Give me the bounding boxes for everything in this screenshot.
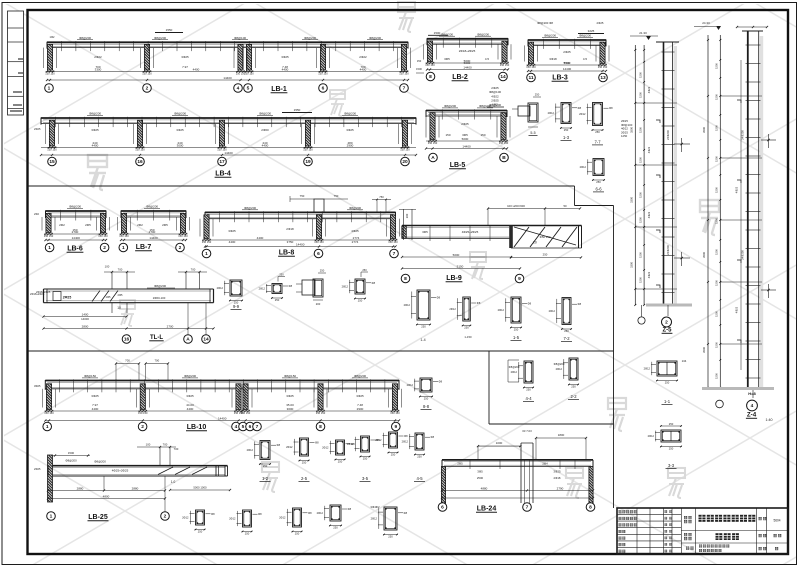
svg-text:Φ8: Φ8 <box>289 284 293 288</box>
svg-text:150 150: 150 150 <box>202 240 212 244</box>
svg-text:14400: 14400 <box>72 236 81 240</box>
column Z-4 elevation <box>694 21 776 422</box>
svg-text:4Φ25+2Φ25: 4Φ25+2Φ25 <box>462 230 479 234</box>
svg-text:150: 150 <box>445 133 450 137</box>
svg-text:4: 4 <box>237 86 240 92</box>
svg-text:Z-5: Z-5 <box>663 328 673 334</box>
svg-text:1: 1 <box>46 424 49 430</box>
svg-text:2Φ2: 2Φ2 <box>137 223 143 227</box>
svg-text:700: 700 <box>174 447 179 451</box>
svg-text:Φ8: Φ8 <box>578 106 582 110</box>
watermark glyphs <box>88 155 107 190</box>
axis bubble 1 of LB-8 <box>202 249 211 258</box>
svg-text:150 150: 150 150 <box>241 411 251 415</box>
svg-text:150 150: 150 150 <box>598 65 608 69</box>
svg-text:150 150: 150 150 <box>303 148 313 152</box>
svg-text:TL-L: TL-L <box>150 335 163 341</box>
axis bubble 14 of LB-2 <box>499 72 508 81</box>
svg-text:LB-24: LB-24 <box>477 506 497 513</box>
svg-text:5000: 5000 <box>462 137 469 141</box>
floor level line <box>635 288 677 290</box>
svg-text:250: 250 <box>245 532 250 536</box>
svg-text:3-5: 3-5 <box>362 476 369 481</box>
svg-text:4400: 4400 <box>282 68 289 72</box>
svg-text:150 150: 150 150 <box>425 63 435 67</box>
svg-text:3Φ25: 3Φ25 <box>91 128 99 132</box>
svg-text:2: 2 <box>141 424 144 430</box>
axis bubble 8 of LB-10 <box>316 422 325 431</box>
svg-text:13: 13 <box>600 75 606 81</box>
section B3 <box>549 298 582 342</box>
svg-text:150 150: 150 150 <box>178 234 188 238</box>
svg-text:2-2: 2-2 <box>570 394 577 399</box>
stirrup tick Z-5 <box>662 236 675 238</box>
axis bubble 1 of LB-10 <box>43 422 52 431</box>
svg-text:1500: 1500 <box>416 67 422 71</box>
floor level line Z-4 <box>720 219 762 221</box>
svg-text:3Φ5: 3Φ5 <box>477 470 483 474</box>
svg-text:1-4: 1-4 <box>420 338 425 342</box>
svg-text:Z-4: Z-4 <box>747 412 757 419</box>
svg-text:7: 7 <box>403 86 406 92</box>
diagonal rebar reverse <box>514 227 576 245</box>
svg-text:1500: 1500 <box>638 252 642 258</box>
svg-text:3Φ25: 3Φ25 <box>281 55 289 59</box>
svg-text:1500: 1500 <box>714 342 718 348</box>
svg-text:8-8: 8-8 <box>423 404 430 409</box>
stirrup tick Z-4 <box>746 100 761 102</box>
section F2 <box>286 438 319 481</box>
stirrup tick Z-5 <box>662 51 675 53</box>
svg-text:2900: 2900 <box>347 144 354 148</box>
svg-text:2Φ12: 2Φ12 <box>579 112 586 116</box>
svg-text:1500: 1500 <box>638 157 642 163</box>
svg-text:7: 7 <box>526 505 529 511</box>
svg-text:1500: 1500 <box>714 311 718 317</box>
svg-text:1500: 1500 <box>714 63 718 69</box>
svg-text:Φ8@200: Φ8@200 <box>369 36 381 40</box>
svg-text:5-5: 5-5 <box>530 131 535 135</box>
svg-text:4Φ22: 4Φ22 <box>647 86 651 93</box>
svg-text:B: B <box>502 155 506 161</box>
beam LB-7 elevation <box>118 205 190 252</box>
svg-text:2Φ12: 2Φ12 <box>580 165 587 169</box>
svg-text:1500: 1500 <box>714 373 718 379</box>
svg-text:14400: 14400 <box>218 417 227 421</box>
axis bubble 7 of LB-24 <box>523 503 532 512</box>
svg-text:Φ8@200: Φ8@200 <box>184 374 196 378</box>
beam LB-4 elevation <box>40 112 417 178</box>
svg-text:Φ8@200: Φ8@200 <box>509 365 520 369</box>
stirrup tick Z-5 <box>662 88 675 90</box>
section 1-1 <box>644 361 678 404</box>
svg-text:2800: 2800 <box>82 325 89 329</box>
svg-text:20: 20 <box>402 159 408 165</box>
svg-text:2Φ22: 2Φ22 <box>359 55 367 59</box>
svg-text:Φ8: Φ8 <box>609 106 613 110</box>
separator line H1 <box>28 185 575 187</box>
diagonal rebar TL-L <box>92 291 100 302</box>
svg-text:2Φ25: 2Φ25 <box>34 467 41 471</box>
svg-text:3Φ5: 3Φ5 <box>422 230 428 234</box>
svg-text:250: 250 <box>363 457 368 461</box>
axis bubble 1 of LB-6 <box>45 243 54 252</box>
svg-text:5150: 5150 <box>457 265 464 269</box>
axis bubble 4 of LB-1 <box>234 84 243 93</box>
title block <box>617 508 788 554</box>
svg-text:250: 250 <box>595 130 600 134</box>
beam TL-L elevation <box>36 265 215 344</box>
svg-text:Φ8@200: Φ8@200 <box>344 112 356 116</box>
svg-text:Φ8@150: Φ8@150 <box>284 374 296 378</box>
svg-text:2: 2 <box>103 245 106 251</box>
axis bubble B of LB-5 <box>500 153 509 162</box>
svg-text:10: 10 <box>117 306 121 310</box>
svg-text:250: 250 <box>669 447 674 451</box>
svg-text:16: 16 <box>137 159 143 165</box>
svg-text:Φ8: Φ8 <box>372 281 376 285</box>
svg-text:14400: 14400 <box>224 151 233 155</box>
svg-text:3500: 3500 <box>702 347 706 353</box>
inset box around LB-9 / sections <box>574 186 576 206</box>
svg-text:250: 250 <box>417 455 422 459</box>
svg-text:2Φ12: 2Φ12 <box>342 285 349 289</box>
svg-text:250: 250 <box>665 381 670 385</box>
column above LB-8 support <box>314 199 324 212</box>
svg-text:LB-3: LB-3 <box>552 75 568 82</box>
stirrup tick Z-5 <box>662 107 675 109</box>
diagonal rebar LB-25 <box>158 467 173 475</box>
svg-text:4.5: 4.5 <box>583 57 588 61</box>
beam LB-5 elevation <box>425 104 510 169</box>
svg-text:14: 14 <box>500 74 506 80</box>
stirrup tick Z-4 <box>746 81 761 83</box>
svg-text:Φ8@200: Φ8@200 <box>146 205 158 209</box>
svg-text:3Φ25: 3Φ25 <box>286 394 294 398</box>
svg-text:14400: 14400 <box>149 236 158 240</box>
stirrup tick Z-4 <box>746 377 761 379</box>
svg-text:150 150: 150 150 <box>400 148 410 152</box>
svg-text:2Φ25: 2Φ25 <box>461 122 469 126</box>
svg-text:1500: 1500 <box>714 218 718 224</box>
stirrup tick Z-5 <box>662 70 675 72</box>
svg-text:Φ8: Φ8 <box>277 443 281 447</box>
stirrup tick Z-4 <box>746 211 761 213</box>
svg-text:250: 250 <box>424 397 429 401</box>
axis bubble 16 of TL-L <box>122 335 131 344</box>
floor level line Z-4 <box>720 343 762 345</box>
svg-text:1500: 1500 <box>638 127 642 133</box>
svg-text:1550: 1550 <box>294 108 301 112</box>
floor level line Z-4 <box>720 281 762 283</box>
svg-text:2Φ60-100: 2Φ60-100 <box>153 296 166 300</box>
svg-text:2Φ12: 2Φ12 <box>644 367 651 371</box>
svg-text:2Φ25: 2Φ25 <box>34 127 41 131</box>
axis bubble 20 of LB-4 <box>401 157 410 166</box>
axis bubble 2 of LB-1 <box>143 84 152 93</box>
svg-text:3750: 3750 <box>287 240 294 244</box>
svg-text:21.30: 21.30 <box>639 31 647 35</box>
svg-text:2Φ12: 2Φ12 <box>404 303 411 307</box>
svg-text:250: 250 <box>526 388 531 392</box>
svg-text:4-5: 4-5 <box>416 476 423 481</box>
svg-text:4400: 4400 <box>193 68 200 72</box>
column Z-5 elevation <box>630 31 693 334</box>
axis bubble A of LB-5 <box>429 153 438 162</box>
diagonal rebar <box>514 227 529 247</box>
svg-text:150 150: 150 150 <box>244 72 254 76</box>
svg-text:2Φ12: 2Φ12 <box>648 434 655 438</box>
svg-text:8: 8 <box>429 74 432 80</box>
beam LB-3 elevation <box>525 34 610 82</box>
revision table strip <box>8 11 24 115</box>
svg-text:3Φ18: 3Φ18 <box>549 57 557 61</box>
svg-text:100 x200=600: 100 x200=600 <box>507 204 525 208</box>
stirrup tick Z-4 <box>746 192 761 194</box>
svg-text:A: A <box>186 337 190 343</box>
svg-text:250: 250 <box>391 453 396 457</box>
svg-text:250: 250 <box>275 298 280 302</box>
svg-text:Φ8@200: Φ8@200 <box>477 32 489 36</box>
svg-text:Φ8: Φ8 <box>437 296 441 300</box>
floor level line Z-4 <box>720 95 762 97</box>
diagonal rebar <box>562 227 577 247</box>
svg-text:2880: 2880 <box>77 487 84 491</box>
svg-text:2Φ25: 2Φ25 <box>63 296 72 300</box>
svg-text:2Φ12: 2Φ12 <box>511 370 518 374</box>
svg-text:14: 14 <box>203 337 209 343</box>
stirrup tick Z-4 <box>746 63 761 65</box>
axis bubble 8 of LB-2 <box>426 72 435 81</box>
svg-text:2Φ5: 2Φ5 <box>162 223 168 227</box>
svg-text:1: 1 <box>205 251 208 257</box>
svg-text:1500: 1500 <box>714 125 718 131</box>
beam LB-8 elevation <box>200 206 400 258</box>
svg-text:2Φ18: 2Φ18 <box>286 227 294 231</box>
svg-text:Φ8: Φ8 <box>528 302 532 306</box>
svg-text:100: 100 <box>105 265 110 269</box>
svg-text:4Φ22: 4Φ22 <box>647 146 651 153</box>
svg-text:14400: 14400 <box>296 243 305 247</box>
svg-text:2-5: 2-5 <box>301 476 308 481</box>
svg-text:Φ8@200: Φ8@200 <box>244 206 256 210</box>
svg-text:750: 750 <box>334 194 339 198</box>
svg-text:1500: 1500 <box>434 31 441 35</box>
axis bubble 1 of LB-1 <box>45 84 54 93</box>
svg-text:1-5: 1-5 <box>513 335 520 340</box>
beam LB-10 elevation <box>43 374 402 431</box>
section B1 <box>449 297 480 330</box>
svg-text:14400: 14400 <box>462 145 471 149</box>
svg-text:250: 250 <box>333 526 338 530</box>
svg-text:7: 7 <box>393 251 396 257</box>
svg-text:24Φ200: 24Φ200 <box>666 130 670 140</box>
svg-text:5000: 5000 <box>453 253 460 257</box>
svg-text:15: 15 <box>49 159 55 165</box>
beam LB-25 elevation <box>47 443 231 522</box>
stirrup tick Z-4 <box>746 248 761 250</box>
svg-text:8: 8 <box>589 505 592 511</box>
svg-text:2Φ25: 2Φ25 <box>563 50 571 54</box>
axis bubble of LB-9 right <box>515 274 524 283</box>
svg-text:Φ8@200: Φ8@200 <box>154 36 166 40</box>
svg-text:2: 2 <box>164 514 167 520</box>
svg-text:1500: 1500 <box>68 451 75 455</box>
svg-text:Φ8@200: Φ8@200 <box>554 362 565 366</box>
stirrup tick Z-4 <box>746 137 761 139</box>
svg-text:2Φ18+2Φ25: 2Φ18+2Φ25 <box>30 292 45 296</box>
svg-text:5604: 5604 <box>773 519 780 523</box>
stirrup tick Z-4 <box>746 174 761 176</box>
beam LB-1 elevation <box>44 36 411 93</box>
svg-text:1-3: 1-3 <box>563 135 570 140</box>
svg-text:150 150: 150 150 <box>388 240 398 244</box>
svg-text:4880: 4880 <box>481 487 488 491</box>
axis bubble A of TL-L <box>184 335 193 344</box>
svg-text:LB-8: LB-8 <box>279 250 295 257</box>
section G4 <box>317 505 352 530</box>
svg-text:250: 250 <box>320 269 325 273</box>
svg-text:Φ8: Φ8 <box>308 511 312 515</box>
section A2 <box>259 272 293 302</box>
section G2 <box>229 510 262 536</box>
section 2-2 <box>556 358 579 399</box>
svg-text:3-3: 3-3 <box>668 463 675 468</box>
svg-text:4Φ22: 4Φ22 <box>735 186 739 193</box>
svg-text:2Φ12: 2Φ12 <box>217 286 224 290</box>
svg-text:150 150: 150 150 <box>135 148 145 152</box>
svg-text:4: 4 <box>235 424 238 430</box>
section A4 <box>342 268 376 303</box>
beam LB-2 elevation <box>424 32 512 81</box>
axis bubble 2 of LB-6 <box>100 243 109 252</box>
svg-text:250: 250 <box>388 535 393 539</box>
svg-text:2Φ22: 2Φ22 <box>94 55 102 59</box>
svg-text:Φ8@200: Φ8@200 <box>444 104 456 108</box>
stirrup tick Z-4 <box>746 118 761 120</box>
svg-text:Φ8@100: Φ8@100 <box>234 36 246 40</box>
section 5-5 with slab flange <box>512 93 541 136</box>
svg-text:2774: 2774 <box>353 236 360 240</box>
svg-text:Φ8@200: Φ8@200 <box>544 34 556 38</box>
svg-text:1500: 1500 <box>638 217 642 223</box>
svg-text:1: 1 <box>122 245 125 251</box>
diagonal rebar LB-25 <box>175 467 190 475</box>
svg-text:2Φ12: 2Φ12 <box>402 440 409 444</box>
svg-text:Φ8@200: Φ8@200 <box>89 112 101 116</box>
svg-text:24Φ200: 24Φ200 <box>741 250 745 260</box>
svg-text:250: 250 <box>535 93 540 97</box>
svg-text:250: 250 <box>338 460 343 464</box>
svg-text:5500: 5500 <box>564 61 571 65</box>
svg-text:250: 250 <box>464 326 469 330</box>
svg-text:1800: 1800 <box>558 433 565 437</box>
section G3 <box>279 508 312 536</box>
svg-text:150 150: 150 150 <box>500 63 510 67</box>
stirrup tick Z-5 <box>662 181 675 183</box>
svg-text:150 150: 150 150 <box>526 65 536 69</box>
axis bubble 15 of LB-4 <box>48 157 57 166</box>
axis bubble 14 of TL-L <box>202 335 211 344</box>
svg-text:1500: 1500 <box>714 249 718 255</box>
svg-text:1500: 1500 <box>714 156 718 162</box>
svg-text:150 150: 150 150 <box>47 148 57 152</box>
svg-text:7-7: 7-7 <box>594 140 601 145</box>
svg-text:2Φ25: 2Φ25 <box>597 21 604 25</box>
svg-text:3Φ25: 3Φ25 <box>91 394 99 398</box>
section A5 <box>404 290 441 329</box>
svg-text:3Φ5: 3Φ5 <box>444 57 450 61</box>
svg-text:200: 200 <box>316 302 321 306</box>
svg-text:150 150: 150 150 <box>119 234 129 238</box>
floor level line <box>635 102 677 104</box>
stirrup tick Z-5 <box>662 162 675 164</box>
svg-text:2Φ2: 2Φ2 <box>34 212 40 216</box>
svg-text:1-1: 1-1 <box>664 399 671 404</box>
svg-text:1500: 1500 <box>638 92 642 98</box>
svg-text:3Φ25: 3Φ25 <box>181 55 189 59</box>
svg-text:1500: 1500 <box>638 192 642 198</box>
svg-text:Φ8: Φ8 <box>578 302 582 306</box>
svg-text:2Φ12: 2Φ12 <box>286 445 293 449</box>
svg-text:2Φ12: 2Φ12 <box>371 517 378 521</box>
svg-text:6: 6 <box>322 86 325 92</box>
axis bubble 2 of LB-10 <box>138 422 147 431</box>
svg-text:250: 250 <box>564 128 569 132</box>
svg-text:700: 700 <box>154 359 159 363</box>
axis bubble 13 of LB-3 <box>599 73 608 82</box>
diagonal rebar TL-L <box>101 291 109 302</box>
svg-text:4Φ22: 4Φ22 <box>647 271 651 278</box>
stirrup tick Z-4 <box>746 340 761 342</box>
svg-text:1400: 1400 <box>82 313 89 317</box>
stirrup tick Z-4 <box>746 155 761 157</box>
svg-text:LB-5: LB-5 <box>450 162 466 169</box>
svg-text:134: 134 <box>682 359 687 363</box>
svg-text:4Φ25+2Φ25: 4Φ25+2Φ25 <box>112 469 129 473</box>
svg-text:2Φ18+2Φ25: 2Φ18+2Φ25 <box>459 49 476 53</box>
axis bubble 5 of LB-10 <box>239 422 248 431</box>
axis bubble 7 of LB-8 <box>390 249 399 258</box>
svg-text:3500: 3500 <box>702 127 706 133</box>
svg-text:6-6: 6-6 <box>595 187 602 192</box>
svg-text:4400: 4400 <box>92 144 99 148</box>
svg-text:Φ8: Φ8 <box>439 380 443 384</box>
svg-text:150 150: 150 150 <box>142 72 152 76</box>
svg-text:3Φ25: 3Φ25 <box>356 394 364 398</box>
svg-text:150 150: 150 150 <box>318 72 328 76</box>
svg-text:Φ8@200 Φ8: Φ8@200 Φ8 <box>537 21 553 25</box>
svg-text:700: 700 <box>163 443 168 447</box>
svg-text:2: 2 <box>146 86 149 92</box>
svg-text:250: 250 <box>571 385 576 389</box>
svg-text:250: 250 <box>596 180 601 184</box>
stirrup tick Z-4 <box>746 359 761 361</box>
svg-text:700: 700 <box>125 359 130 363</box>
svg-text:1-2: 1-2 <box>262 476 269 481</box>
axis bubble 6 of LB-8 <box>314 249 323 258</box>
svg-text:150 150: 150 150 <box>45 72 55 76</box>
stirrup tick Z-4 <box>746 266 761 268</box>
axis bubble 6 of LB-10 <box>246 422 255 431</box>
svg-text:2Φ5: 2Φ5 <box>85 223 91 227</box>
svg-text:LB-1: LB-1 <box>271 86 287 93</box>
svg-text:Φ8@200: Φ8@200 <box>349 206 361 210</box>
axis bubble 6 of LB-1 <box>319 84 328 93</box>
axis bubble 6 of LB-24 <box>438 503 447 512</box>
svg-text:250: 250 <box>564 329 569 333</box>
stirrup tick Z-5 <box>662 199 675 201</box>
